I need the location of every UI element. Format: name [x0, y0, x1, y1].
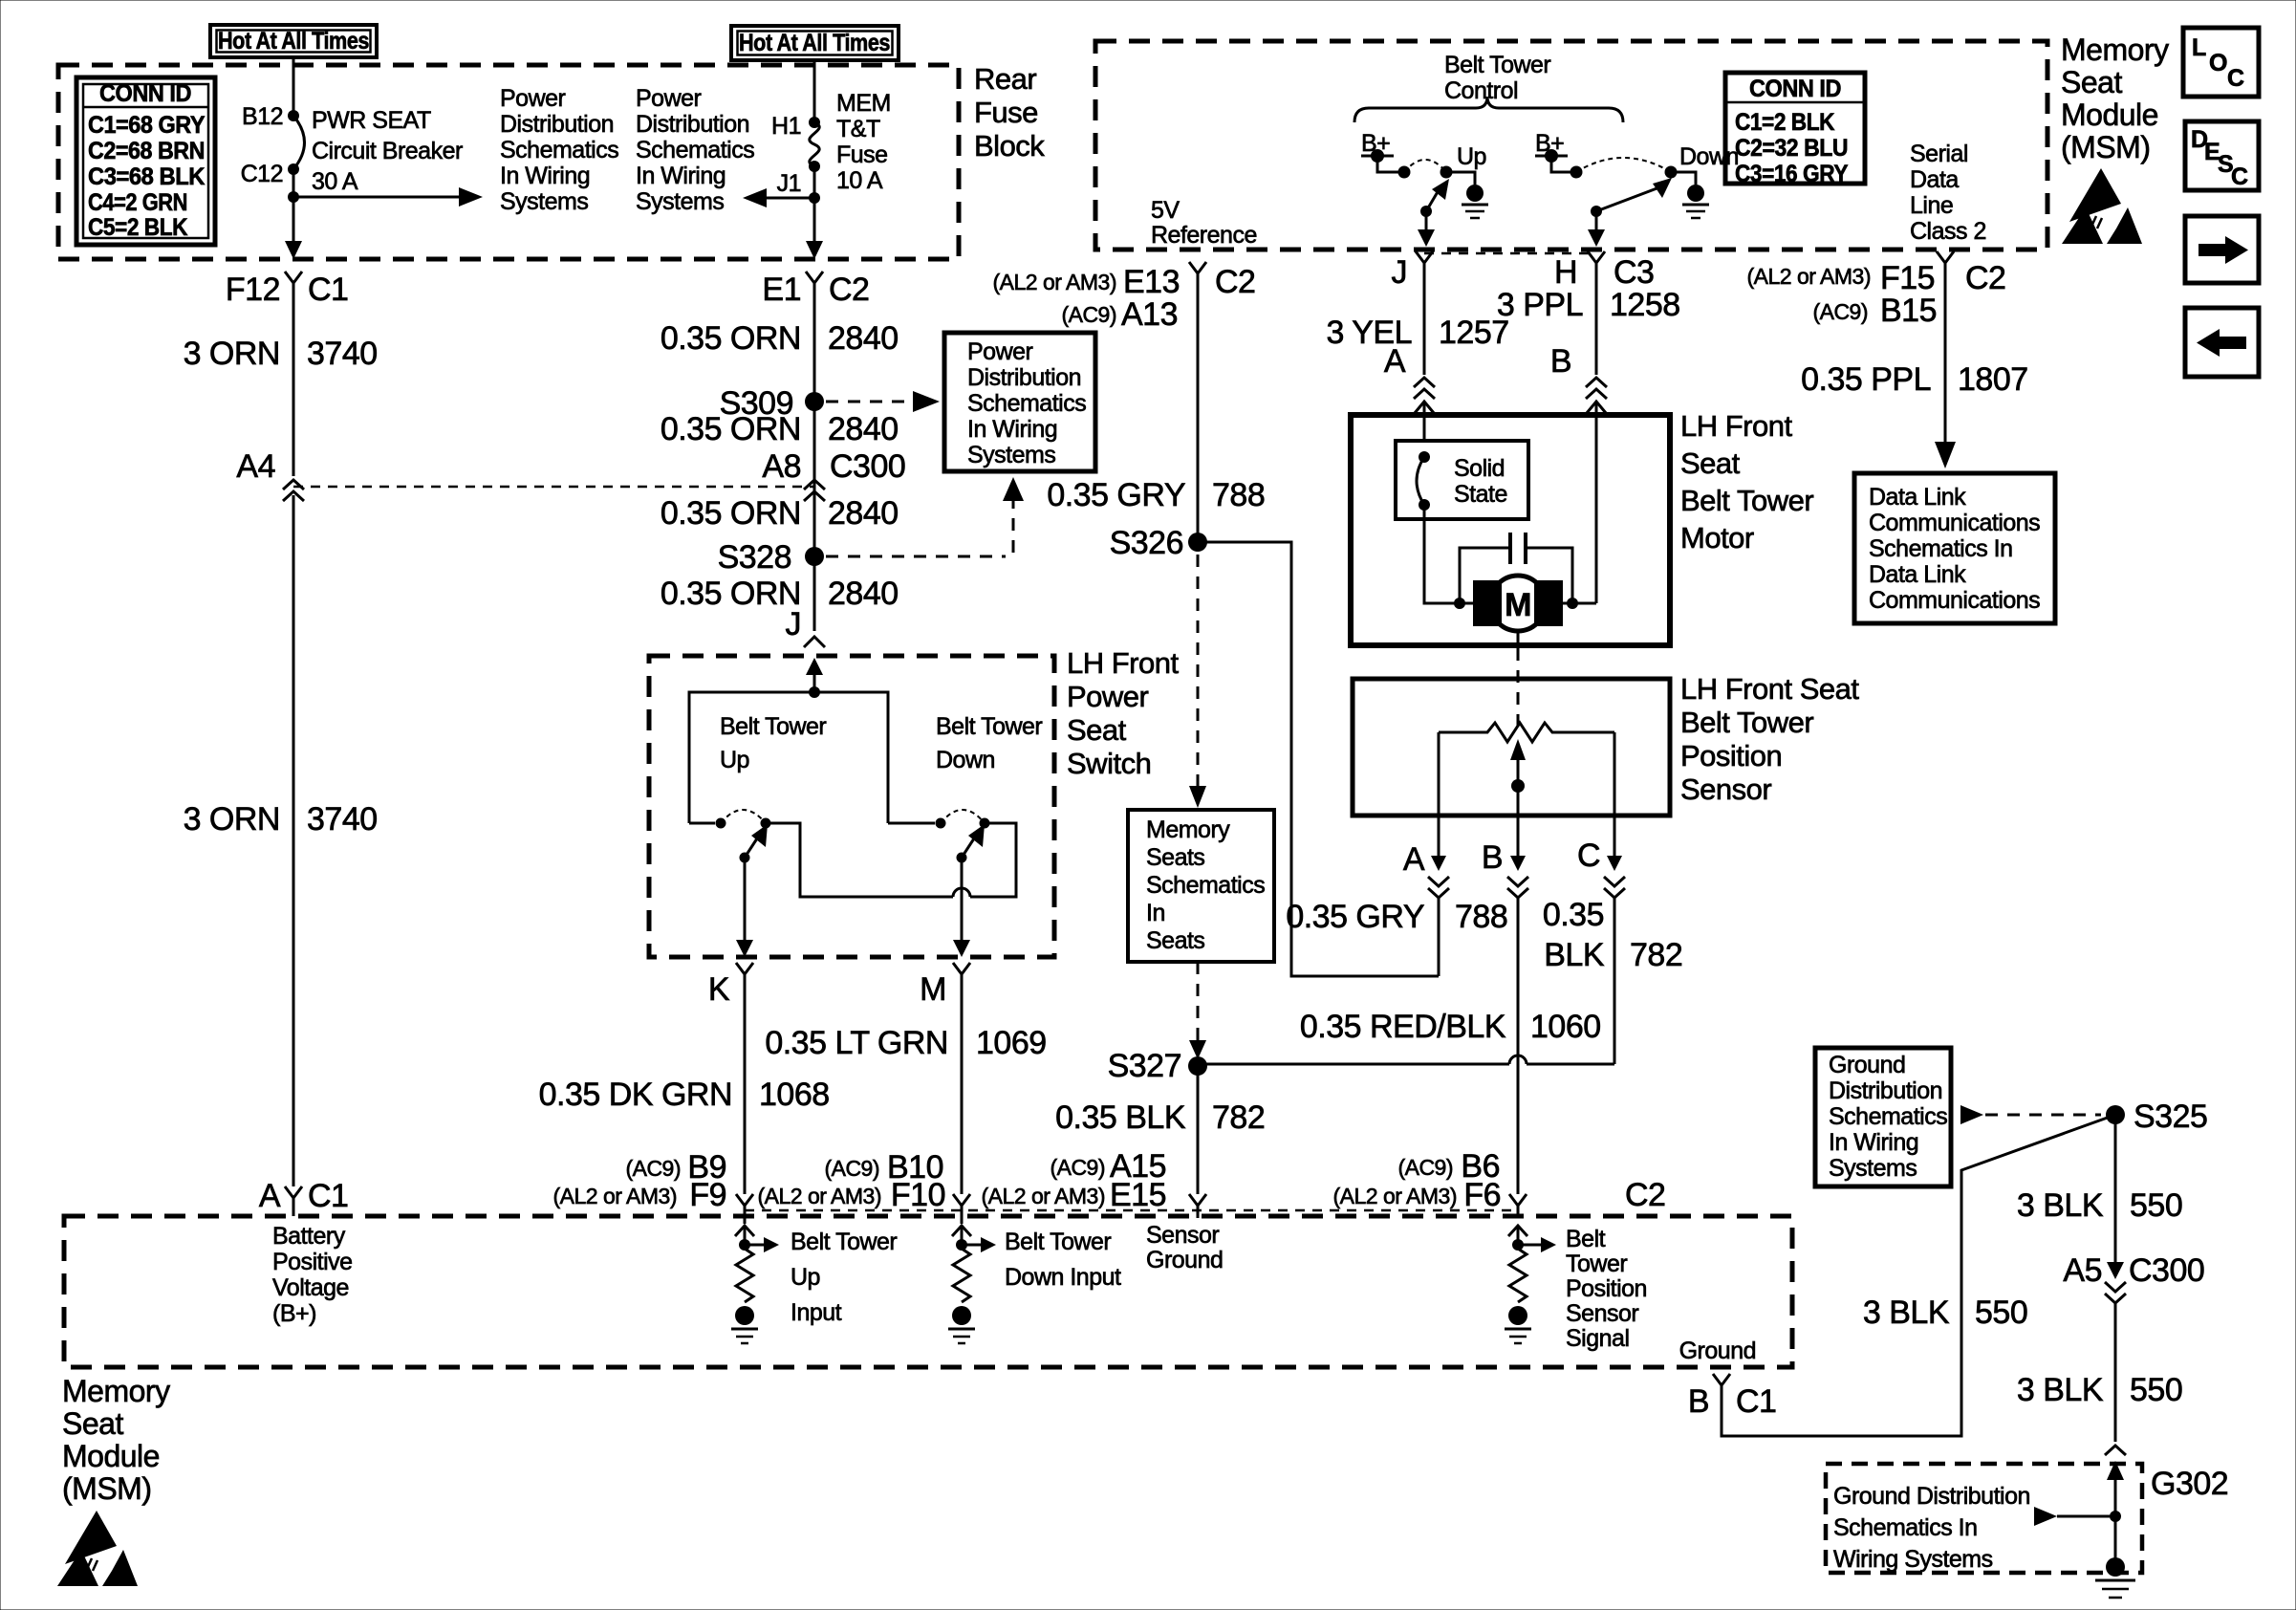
wire 3 PPL 1258 [1595, 275, 1598, 375]
svg-text:C3=68 BLK: C3=68 BLK [88, 163, 205, 190]
svg-text:(MSM): (MSM) [2061, 130, 2150, 164]
svg-text:S326: S326 [1110, 525, 1183, 561]
wire: down output to pin M [961, 858, 964, 943]
svg-text:3 BLK: 3 BLK [2017, 1372, 2104, 1408]
svg-text:Distribution: Distribution [967, 364, 1081, 391]
svg-text:Systems: Systems [1829, 1155, 1917, 1182]
connector C2 into MSM at M [953, 1194, 970, 1224]
wire below breaker [292, 169, 295, 256]
svg-text:Seats: Seats [1146, 927, 1204, 954]
wire arrow to Power Distribution Schematics [293, 196, 461, 199]
svg-text:Tower: Tower [1566, 1251, 1627, 1277]
Hot At All Times box (left) [210, 25, 377, 57]
connector A/C1 into MSM [259, 1178, 349, 1216]
svg-text:S328: S328 [718, 539, 791, 576]
svg-text:C3=16 GRY: C3=16 GRY [1735, 161, 1849, 187]
svg-text:0.35: 0.35 [1543, 897, 1604, 933]
svg-text:Line: Line [1910, 192, 1953, 219]
svg-text:(AL2 or AM3): (AL2 or AM3) [553, 1184, 678, 1208]
svg-text:B: B [1688, 1383, 1709, 1420]
svg-text:Down: Down [936, 747, 995, 773]
svg-text:Block: Block [974, 129, 1045, 163]
svg-text:Memory: Memory [62, 1374, 170, 1408]
grommet into G302 [2105, 1446, 2126, 1455]
Ground Distribution Schematics dashed box [1826, 1464, 2142, 1573]
wire 0.35 BLK 782 down from S327 [1197, 1066, 1200, 1194]
wire: up output to pin K [744, 858, 747, 943]
svg-text:0.35 BLK: 0.35 BLK [1055, 1099, 1186, 1136]
connector E1/C2 [762, 272, 869, 308]
svg-text:5V: 5V [1151, 197, 1180, 224]
svg-text:Battery: Battery [272, 1223, 346, 1250]
svg-text:A: A [259, 1178, 281, 1214]
dashed tie line connector C3 [1424, 252, 1596, 255]
svg-text:1060: 1060 [1530, 1009, 1601, 1045]
svg-text:In: In [1146, 900, 1165, 926]
svg-text:E13: E13 [1123, 264, 1180, 300]
LOC box [2183, 28, 2259, 97]
wire S327 to pin C with hop over B [1198, 1063, 1509, 1066]
connector A8/C300 chevrons [762, 448, 905, 501]
svg-text:Belt Tower: Belt Tower [1680, 706, 1813, 739]
DESC box [2185, 121, 2259, 190]
svg-text:(AC9): (AC9) [1061, 302, 1116, 327]
svg-text:E15: E15 [1110, 1177, 1166, 1213]
CONN ID table (left, C1-C5) [76, 77, 215, 245]
svg-text:Input: Input [791, 1299, 842, 1326]
connector E13/C2 (5V reference) [993, 262, 1256, 333]
svg-text:2840: 2840 [828, 411, 899, 447]
potentiometer wiper [1510, 739, 1526, 816]
fuse MEM T&T 10A [771, 90, 891, 197]
wire 3 BLK 550 from S325 down [2114, 1115, 2117, 1264]
svg-text:0.35 PPL: 0.35 PPL [1801, 361, 1931, 398]
svg-text:C12: C12 [241, 161, 283, 187]
svg-text:Hot At All Times: Hot At All Times [218, 28, 369, 54]
svg-text:S327: S327 [1108, 1048, 1181, 1084]
svg-text:Signal: Signal [1566, 1325, 1630, 1352]
svg-text:Belt Tower: Belt Tower [1444, 52, 1550, 78]
left arrow box [2185, 308, 2259, 377]
svg-text:H: H [1554, 254, 1577, 291]
svg-text:In Wiring: In Wiring [636, 163, 726, 189]
svg-text:Fuse: Fuse [974, 96, 1038, 129]
splice S327 [1188, 1056, 1207, 1076]
svg-text:(MSM): (MSM) [62, 1471, 151, 1506]
svg-text:Power: Power [967, 338, 1033, 365]
wire below fuse [813, 166, 816, 256]
connector A4 chevrons [236, 448, 304, 501]
svg-text:F15: F15 [1880, 260, 1935, 296]
B+ terminal (down) [1535, 130, 1570, 172]
Belt Tower Down Input resistor to ground [948, 1226, 1121, 1343]
svg-text:(AC9): (AC9) [1397, 1155, 1453, 1180]
svg-text:(AC9): (AC9) [1050, 1155, 1105, 1180]
svg-text:0.35 LT GRN: 0.35 LT GRN [765, 1025, 948, 1061]
svg-text:Ground: Ground [1146, 1247, 1223, 1273]
wire 0.35 LT GRN 1069 [961, 986, 964, 1194]
svg-text:C5=2 BLK: C5=2 BLK [88, 214, 187, 241]
svg-text:In Wiring: In Wiring [967, 416, 1057, 443]
svg-text:Serial: Serial [1910, 141, 1968, 167]
svg-text:3 BLK: 3 BLK [2017, 1187, 2104, 1224]
svg-text:3 ORN: 3 ORN [184, 801, 280, 838]
svg-text:Power: Power [1067, 680, 1149, 713]
svg-text:C: C [2231, 163, 2248, 190]
Hot At All Times box (middle) [731, 26, 899, 60]
connector K below switch [708, 963, 753, 1008]
svg-text:F10: F10 [891, 1177, 945, 1213]
dashed tie line connector C2 (bottom row) [745, 1209, 1518, 1212]
dashed wire S326 to Memory Seats schematics [1197, 555, 1200, 788]
svg-text:Solid: Solid [1454, 455, 1505, 482]
svg-text:3 BLK: 3 BLK [1863, 1295, 1950, 1331]
splice S328 [718, 477, 1024, 576]
brace [1354, 97, 1623, 122]
svg-text:C2=32 BLU: C2=32 BLU [1735, 135, 1848, 162]
wire: battery feed down from Hot At All Times (left) [292, 57, 295, 116]
svg-text:Down Input: Down Input [1005, 1264, 1121, 1291]
svg-text:C2: C2 [1625, 1177, 1665, 1213]
B+ terminal (up) [1361, 130, 1398, 172]
svg-text:Up: Up [720, 747, 749, 773]
svg-text:Module: Module [62, 1439, 160, 1473]
svg-text:Schematics: Schematics [636, 137, 754, 163]
svg-text:(AL2 or AM3): (AL2 or AM3) [758, 1184, 882, 1208]
svg-text:Schematics In: Schematics In [1869, 535, 2013, 562]
svg-text:550: 550 [2130, 1187, 2182, 1224]
svg-text:Ground: Ground [1679, 1338, 1756, 1364]
svg-text:1807: 1807 [1958, 361, 2028, 398]
dashed wire to S327 [1197, 962, 1200, 1042]
svg-text:C1: C1 [308, 1178, 348, 1214]
svg-text:550: 550 [1975, 1295, 2027, 1331]
capacitor across motor [1460, 533, 1572, 603]
svg-text:Wiring Systems: Wiring Systems [1833, 1546, 1993, 1573]
svg-text:(AL2 or AM3): (AL2 or AM3) [982, 1184, 1106, 1208]
Data Link Communications box [1854, 473, 2055, 623]
svg-text:788: 788 [1212, 477, 1265, 513]
svg-text:0.35 GRY: 0.35 GRY [1286, 899, 1424, 935]
wire arrow: exits fuse block [806, 241, 823, 259]
svg-text:B15: B15 [1880, 293, 1937, 329]
svg-text:F9: F9 [689, 1177, 726, 1213]
seat switch: feed arrow into switch [813, 672, 816, 692]
Memory Seats Schematics In Seats box [1128, 810, 1274, 962]
svg-text:Position: Position [1566, 1275, 1647, 1302]
svg-text:C1: C1 [1736, 1383, 1776, 1420]
svg-text:Power: Power [636, 85, 702, 112]
Rear Fuse Block dashed box [58, 65, 959, 259]
svg-text:C: C [2227, 65, 2244, 92]
svg-text:C2=68 BRN: C2=68 BRN [88, 138, 205, 164]
svg-text:Communications: Communications [1869, 510, 2040, 536]
svg-text:M: M [920, 971, 946, 1008]
svg-text:Belt Tower: Belt Tower [1680, 484, 1813, 517]
svg-text:C1: C1 [308, 272, 348, 308]
splice S326 [1188, 533, 1207, 552]
circuit breaker PWR SEAT 30A [241, 103, 463, 195]
svg-text:782: 782 [1630, 937, 1682, 973]
Belt Tower Down switch [888, 713, 1042, 863]
svg-text:F12: F12 [226, 272, 280, 308]
connector F15/C2 serial data [1747, 251, 2006, 329]
svg-text:Seat: Seat [62, 1406, 123, 1441]
svg-text:(AC9): (AC9) [824, 1156, 879, 1181]
Solid State box [1396, 441, 1528, 519]
sensor pin B [1482, 816, 1528, 1194]
wire 3 BLK 550 to G302 [2114, 1303, 2117, 1442]
svg-text:J: J [786, 606, 802, 642]
svg-text:Schematics: Schematics [967, 390, 1086, 417]
svg-text:C1=2 BLK: C1=2 BLK [1735, 109, 1834, 136]
svg-text:1068: 1068 [759, 1077, 830, 1113]
Serial Data Line Class 2 label [1910, 141, 1986, 245]
right arrow box [2185, 216, 2259, 283]
svg-text:550: 550 [2130, 1372, 2182, 1408]
svg-text:Systems: Systems [500, 188, 588, 215]
svg-text:Hot At All Times: Hot At All Times [739, 30, 890, 56]
svg-text:0.35 DK GRN: 0.35 DK GRN [539, 1077, 732, 1113]
svg-text:C1=68 GRY: C1=68 GRY [88, 112, 206, 139]
svg-text:Ground Distribution: Ground Distribution [1833, 1483, 2030, 1510]
svg-text:1258: 1258 [1610, 287, 1680, 323]
svg-text:In Wiring: In Wiring [1829, 1129, 1918, 1156]
svg-text:Communications: Communications [1869, 587, 2040, 614]
wire 3 ORN 3740 upper [292, 296, 295, 476]
wire B/C1 ground from MSM [1679, 1338, 1777, 1420]
svg-text:Fuse: Fuse [836, 141, 888, 168]
Memory Seat Module dashed box (bottom) [64, 1216, 1792, 1367]
svg-text:CONN ID: CONN ID [99, 80, 191, 107]
svg-text:CONN ID: CONN ID [1749, 76, 1841, 102]
svg-text:2840: 2840 [828, 495, 899, 532]
svg-text:(AL2 or AM3): (AL2 or AM3) [1747, 264, 1872, 289]
LH Front Seat Belt Tower Motor box [1351, 415, 1670, 645]
svg-text:C300: C300 [2129, 1252, 2204, 1289]
svg-text:Belt Tower: Belt Tower [936, 713, 1042, 740]
connector J (motor) below MSM [1392, 251, 1434, 291]
Ground Distribution Schematics box (solid) [1815, 1048, 1951, 1186]
svg-text:H1: H1 [771, 113, 801, 140]
svg-text:Class 2: Class 2 [1910, 218, 1986, 245]
svg-text:(AC9): (AC9) [1812, 299, 1868, 324]
svg-text:1069: 1069 [976, 1025, 1047, 1061]
sensor pin C [1577, 816, 1625, 1064]
svg-text:0.35 ORN: 0.35 ORN [661, 576, 801, 612]
svg-text:G302: G302 [2151, 1466, 2228, 1502]
svg-text:B12: B12 [242, 103, 283, 130]
svg-text:3 PPL: 3 PPL [1497, 287, 1583, 323]
svg-text:E1: E1 [762, 272, 801, 308]
CONN ID table (right C1-C3) [1725, 73, 1865, 187]
svg-text:Seat: Seat [1067, 713, 1127, 747]
svg-text:Sensor: Sensor [1680, 772, 1771, 806]
splice S325 [2106, 1105, 2125, 1124]
wire solid state to motor [1424, 505, 1460, 603]
svg-text:C2: C2 [1965, 260, 2005, 296]
svg-text:MEM: MEM [836, 90, 891, 117]
svg-text:Position: Position [1680, 739, 1782, 772]
svg-text:A4: A4 [236, 448, 275, 485]
ground G302 [2095, 1557, 2135, 1598]
svg-text:A: A [1403, 841, 1425, 878]
wire: MEM T&T fuse feed [813, 60, 816, 122]
ESD symbol top right [2062, 168, 2142, 244]
LH Front Power Seat Switch dashed box [649, 656, 1054, 957]
svg-text:Systems: Systems [967, 442, 1055, 468]
svg-text:A8: A8 [762, 448, 801, 485]
svg-text:3 ORN: 3 ORN [184, 336, 280, 372]
svg-text:Down: Down [1679, 143, 1739, 170]
potentiometer resistor [1439, 723, 1614, 742]
svg-text:788: 788 [1455, 899, 1507, 935]
svg-text:C: C [1577, 838, 1600, 874]
svg-text:(B+): (B+) [272, 1300, 316, 1327]
dashed pointer to S325 [1960, 1105, 1983, 1124]
svg-text:3740: 3740 [307, 336, 378, 372]
svg-text:Up: Up [1457, 143, 1486, 170]
svg-text:Motor: Motor [1680, 521, 1754, 555]
svg-text:(AL2 or AM3): (AL2 or AM3) [993, 270, 1117, 294]
svg-text:0.35 ORN: 0.35 ORN [661, 320, 801, 357]
svg-text:In Wiring: In Wiring [500, 163, 590, 189]
Belt Tower Up switch [689, 713, 826, 863]
svg-text:O: O [2209, 50, 2227, 76]
svg-text:A5: A5 [2063, 1252, 2102, 1289]
Belt Tower Up Input resistor to ground [731, 1226, 897, 1343]
svg-text:Module: Module [2061, 98, 2158, 132]
svg-text:Power: Power [500, 85, 566, 112]
svg-text:Switch: Switch [1067, 747, 1151, 780]
svg-text:Seat: Seat [2061, 65, 2122, 99]
connector C2 into MSM (signal) [1509, 1177, 1665, 1218]
pin J of seat switch [786, 606, 826, 647]
svg-text:Positive: Positive [272, 1249, 353, 1275]
svg-text:C4=2 GRN: C4=2 GRN [88, 189, 187, 216]
svg-text:Seat: Seat [1680, 446, 1741, 480]
wire 3 BLK 550 from B/C1 to S325 [1722, 1115, 2115, 1436]
svg-text:782: 782 [1212, 1099, 1265, 1136]
wire arrow left to Power Distribution Schematics [765, 197, 814, 200]
svg-text:S325: S325 [2134, 1099, 2207, 1135]
svg-text:2840: 2840 [828, 320, 899, 357]
svg-text:C2: C2 [829, 272, 869, 308]
svg-text:(AL2 or AM3): (AL2 or AM3) [1333, 1184, 1458, 1208]
svg-text:PWR SEAT: PWR SEAT [312, 107, 431, 134]
svg-text:0.35 ORN: 0.35 ORN [661, 495, 801, 532]
svg-text:B: B [1482, 839, 1503, 876]
Belt Tower Position Sensor Signal label [1566, 1226, 1647, 1352]
svg-text:Schematics: Schematics [500, 137, 618, 163]
Power Distribution Schematics box (solid) [944, 333, 1095, 471]
svg-text:Data Link: Data Link [1869, 484, 1966, 511]
sensor pin A [1403, 816, 1449, 976]
svg-text:Data: Data [1910, 166, 1959, 193]
svg-text:Distribution: Distribution [500, 111, 614, 138]
svg-text:10 A: 10 A [836, 167, 883, 194]
svg-text:LH Front: LH Front [1680, 409, 1792, 443]
svg-text:J: J [1392, 254, 1408, 291]
connector M below switch [920, 963, 970, 1008]
svg-text:Systems: Systems [636, 188, 724, 215]
svg-text:State: State [1454, 481, 1507, 508]
svg-text:LH Front Seat: LH Front Seat [1680, 672, 1859, 706]
Down switch inside MSM [1570, 143, 1739, 247]
svg-text:0.35 RED/BLK: 0.35 RED/BLK [1300, 1009, 1506, 1045]
svg-text:Circuit Breaker: Circuit Breaker [312, 138, 463, 164]
svg-text:Schematics In: Schematics In [1833, 1514, 1978, 1541]
svg-text:Up: Up [791, 1264, 820, 1291]
ESD symbol bottom left [57, 1511, 138, 1586]
motor M [1460, 576, 1596, 631]
svg-text:Ground: Ground [1829, 1052, 1905, 1078]
svg-text:Voltage: Voltage [272, 1274, 349, 1301]
svg-text:B: B [1550, 343, 1571, 380]
Power Distribution Schematics In Wiring Systems (text, right) [636, 85, 754, 215]
wire 0.35 GRY 788 (5V ref) [1197, 287, 1200, 533]
svg-text:Data Link: Data Link [1869, 561, 1966, 588]
Battery Positive Voltage (B+) label [272, 1223, 353, 1327]
svg-text:Schematics: Schematics [1146, 872, 1265, 899]
svg-text:K: K [708, 971, 730, 1008]
motor output to position sensor (mechanical link) [1517, 631, 1520, 646]
svg-text:F6: F6 [1463, 1177, 1501, 1213]
svg-text:3740: 3740 [307, 801, 378, 838]
wire 3 YEL 1257 [1423, 275, 1426, 375]
svg-text:LH Front: LH Front [1067, 646, 1179, 680]
svg-text:Schematics: Schematics [1829, 1103, 1947, 1130]
svg-text:Sensor: Sensor [1146, 1222, 1219, 1249]
connector C2 into MSM (sensor ground) [1189, 1194, 1206, 1218]
dashed tie line connector C300 [293, 486, 814, 489]
svg-text:Distribution: Distribution [636, 111, 749, 138]
svg-text:Distribution: Distribution [1829, 1077, 1942, 1104]
Memory Seat Module dashed box (top) [1095, 41, 2047, 250]
LH Front Seat Belt Tower Position Sensor box [1353, 679, 1670, 816]
svg-text:0.35 GRY: 0.35 GRY [1047, 477, 1185, 513]
svg-text:J1: J1 [777, 170, 801, 197]
svg-text:Belt Tower: Belt Tower [720, 713, 826, 740]
svg-text:Memory: Memory [1146, 816, 1230, 843]
Belt Tower Position Sensor Signal resistor [1505, 1226, 1556, 1343]
splice S309 [720, 385, 940, 422]
svg-text:Control: Control [1444, 77, 1518, 104]
node: breaker output junction [288, 191, 299, 203]
svg-text:M: M [1505, 587, 1531, 623]
connector F12/C1 [226, 272, 349, 308]
svg-text:A13: A13 [1121, 296, 1178, 333]
svg-text:L: L [2192, 34, 2206, 61]
node: fuse output junction [809, 192, 820, 204]
svg-text:Seats: Seats [1146, 844, 1204, 871]
wire 3 ORN 3740 lower [292, 495, 295, 1186]
svg-text:(AC9): (AC9) [625, 1156, 681, 1181]
connector H/C3 [1554, 251, 1655, 291]
svg-text:Belt Tower: Belt Tower [1005, 1229, 1111, 1255]
connector A5/C300 [2063, 1252, 2204, 1303]
svg-text:Rear: Rear [974, 62, 1036, 96]
connector C2 into MSM at K [736, 1194, 753, 1224]
svg-text:Memory: Memory [2061, 33, 2169, 67]
switch top bus [689, 692, 888, 823]
wire 0.35 PPL 1807 [1944, 275, 1947, 446]
wire from S326 to sensor pin A [1198, 542, 1439, 976]
svg-text:C2: C2 [1215, 264, 1255, 300]
svg-text:0.35 ORN: 0.35 ORN [661, 411, 801, 447]
wire 0.35 ORN 2840 (1) [813, 296, 816, 631]
pointer arrow inside G302 box [2034, 1507, 2057, 1526]
